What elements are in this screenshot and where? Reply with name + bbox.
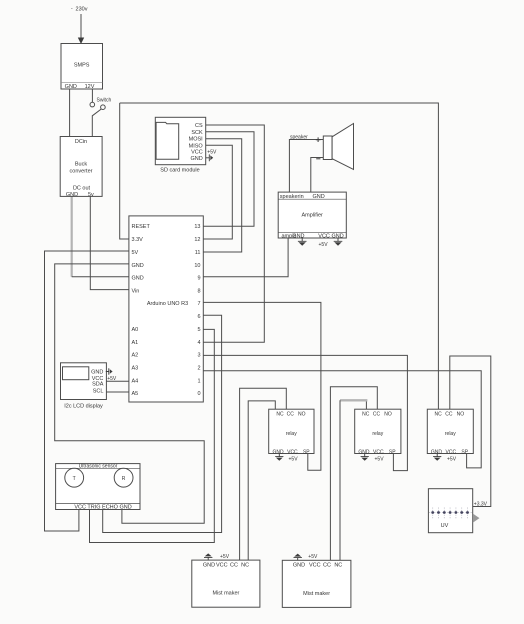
svg-text:I2c LCD display: I2c LCD display (64, 403, 103, 409)
ground symbol below relay K3 GND (433, 454, 441, 457)
svg-text:converter: converter (70, 168, 93, 174)
svg-text:10: 10 (194, 263, 200, 269)
svg-text:A1: A1 (132, 340, 139, 346)
wire Arduino 3.3V riser to top rail (120, 103, 129, 239)
ground symbol below relay K2 GND (361, 454, 369, 457)
ultrasonic bottom separator line (56, 502, 140, 504)
amplifier top separator line (278, 198, 346, 200)
UV module gray arrow (473, 514, 480, 523)
ground symbol below relay K1 GND (275, 454, 283, 457)
svg-text:GND: GND (358, 449, 370, 455)
svg-text:Mist maker: Mist maker (212, 591, 239, 597)
wire speaker + to amplifier speakerin (289, 140, 323, 193)
svg-text:GND: GND (132, 263, 144, 269)
230v arrowhead (78, 38, 84, 45)
svg-text:A5: A5 (132, 391, 139, 397)
svg-text:NC: NC (362, 412, 370, 418)
svg-text:VCC: VCC (446, 449, 457, 455)
svg-text:SD card module: SD card module (160, 167, 199, 173)
svg-text:0: 0 (197, 391, 200, 397)
svg-text:NO: NO (298, 412, 306, 418)
svg-text:8: 8 (197, 289, 200, 295)
svg-text:GND: GND (65, 84, 77, 90)
svg-text:Mist maker: Mist maker (303, 591, 330, 597)
svg-text:GND: GND (293, 563, 305, 569)
ultrasonic transmitter circle T (65, 468, 84, 487)
wire Arduino pin 2 to relay K3 SP (203, 371, 481, 468)
amplifier box (278, 192, 346, 238)
svg-text:A2: A2 (132, 353, 139, 359)
svg-text:GND: GND (203, 562, 215, 568)
ground symbol below amplifier VCC-side GND (334, 238, 343, 241)
SD card module box (155, 117, 205, 164)
svg-text:SP: SP (389, 449, 396, 455)
svg-text:relay: relay (372, 431, 383, 437)
svg-text:+3.3V: +3.3V (474, 501, 488, 507)
label speaker - (316, 158, 320, 160)
svg-text:NO: NO (384, 412, 392, 418)
ground symbol above mist maker 1 GND (204, 557, 212, 560)
svg-text:Switch: Switch (97, 98, 112, 104)
svg-text:6: 6 (197, 314, 200, 320)
svg-text:3: 3 (197, 353, 200, 359)
speaker horn (332, 124, 353, 170)
svg-text:GND: GND (91, 370, 103, 376)
svg-text:+5V: +5V (308, 554, 318, 560)
LCD screen rectangle (63, 367, 89, 380)
svg-text:SCK: SCK (191, 130, 203, 136)
buck converter box (60, 137, 102, 197)
svg-text:5: 5 (197, 327, 200, 333)
ground symbol below amplifier ampin GND (298, 238, 307, 241)
svg-text:SP: SP (303, 449, 310, 455)
svg-text:NC: NC (334, 563, 342, 569)
svg-text:1: 1 (197, 378, 200, 384)
wire SMPS 12V to switch (91, 89, 93, 102)
svg-text:Buck: Buck (75, 161, 87, 167)
UV LED dots (431, 511, 469, 514)
svg-text:Arduino UNO R3: Arduino UNO R3 (147, 301, 188, 307)
svg-text:SP: SP (461, 449, 468, 455)
relay K3 box (427, 409, 473, 453)
ultrasonic sensor box (56, 464, 140, 510)
wire LCD SDA to Arduino A4 (106, 380, 129, 382)
svg-text:MISO: MISO (189, 143, 204, 149)
svg-text:5V: 5V (132, 250, 139, 256)
svg-text:+5V: +5V (107, 376, 117, 382)
wire Buck GND out to Arduino GND (vertical, highlighted gray) (71, 196, 73, 276)
ultrasonic top separator line (56, 467, 140, 469)
wire SMPS GND to Buck converter DCin (69, 89, 71, 137)
svg-text:CC: CC (323, 563, 331, 569)
svg-text:+5V: +5V (375, 457, 385, 463)
svg-text:T: T (73, 476, 76, 482)
wire relay K1 NC to mist maker 1 NC (248, 401, 275, 560)
wire relay K1 CC to mist maker 1 CC (240, 388, 287, 560)
wire SD card CS to Arduino pin 4 (203, 125, 264, 342)
svg-text:A0: A0 (132, 327, 139, 333)
svg-text:NO: NO (457, 412, 465, 418)
switch terminal circle 2 (101, 105, 106, 110)
I2c LCD display box (61, 363, 107, 400)
Arduino UNO R3 box (129, 216, 203, 402)
svg-text:relay: relay (445, 431, 456, 437)
svg-text:+5V: +5V (447, 457, 457, 463)
ground symbol right of SD card GND pin (206, 154, 210, 161)
mist maker 1 box (192, 560, 260, 607)
svg-text:+5V: +5V (319, 242, 329, 248)
svg-text:+5V: +5V (289, 457, 299, 463)
wire SD card MISO to Arduino pin 12 (203, 145, 232, 239)
switch terminal circle 1 (90, 102, 95, 107)
svg-text:2: 2 (197, 366, 200, 372)
svg-text:VCC: VCC (373, 449, 384, 455)
svg-text:GND: GND (132, 276, 144, 282)
wire relay K3 CC to UV module +3.3V (450, 356, 491, 507)
wire 230v mains input into SMPS (80, 14, 82, 39)
svg-text:+5V: +5V (207, 149, 217, 155)
svg-text:CC: CC (230, 562, 238, 568)
svg-text:VCC: VCC (191, 149, 203, 155)
svg-text:NC: NC (241, 562, 249, 568)
svg-text:11: 11 (195, 250, 201, 256)
wire relay K2 NC highlighted gray segment (340, 399, 367, 401)
ground symbol right of LCD GND pin (106, 368, 109, 375)
svg-text:12V: 12V (85, 84, 95, 90)
svg-text:GND: GND (272, 449, 284, 455)
svg-text:speaker: speaker (290, 134, 308, 140)
svg-text:R: R (122, 476, 126, 482)
svg-text:RESET: RESET (132, 224, 151, 230)
wire Arduino 5V rail to ultrasonic VCC (45, 251, 129, 531)
svg-text:GND: GND (431, 449, 443, 455)
svg-text:+5V: +5V (220, 554, 230, 560)
wire switch to Buck converter DCin (92, 109, 101, 137)
wire SD card SCK to Arduino pin 13 (203, 132, 254, 227)
SMPS label separator line (61, 82, 103, 84)
wire relay K2 NC vertical stub (365, 400, 367, 409)
svg-text:VCC TRIG ECHO GND: VCC TRIG ECHO GND (74, 504, 131, 510)
svg-text:DC out: DC out (73, 186, 91, 192)
svg-text:Amplifier: Amplifier (301, 212, 323, 218)
wire Arduino pin 9 to amplifier ampin (203, 238, 288, 277)
relay K2 box (355, 409, 401, 453)
svg-text:230v: 230v (76, 7, 88, 13)
svg-text:7: 7 (197, 301, 200, 307)
svg-text:12: 12 (194, 237, 200, 243)
svg-text:speakerin: speakerin (280, 194, 304, 200)
svg-text:GND: GND (292, 233, 304, 239)
label speaker + (316, 137, 321, 142)
speaker driver rectangle (323, 136, 332, 160)
wire Buck GND out to Arduino GND (horizontal) (72, 276, 129, 278)
ultrasonic receiver circle R (114, 468, 133, 487)
svg-text:5v: 5v (88, 192, 94, 198)
mist maker 2 box (282, 560, 351, 607)
wire mist maker 2 NC riser (339, 400, 341, 560)
wire SD card MOSI to Arduino pin 11 (203, 139, 241, 252)
ground symbol above mist maker 2 GND (294, 558, 302, 561)
svg-text:SDA: SDA (92, 382, 104, 388)
svg-text:A4: A4 (132, 378, 139, 384)
svg-text:NC: NC (434, 412, 442, 418)
wire Buck 5v out to Arduino Vin (90, 196, 129, 289)
wire Arduino pin 7 to relay K1 SP (203, 302, 321, 470)
svg-text:SCL: SCL (93, 389, 104, 395)
svg-text:CS: CS (195, 123, 203, 129)
svg-text:MOSI: MOSI (189, 137, 204, 143)
svg-text:GND: GND (190, 156, 202, 162)
wire relay K2 CC to mist maker 2 CC (330, 387, 377, 561)
UV module dotted vertical ticks (433, 508, 468, 520)
wire top rail 3.3V to relay K3 NC (120, 103, 439, 409)
svg-text:VCC: VCC (216, 562, 228, 568)
wire speaker - to amplifier GND (311, 158, 324, 193)
svg-text:CC: CC (287, 412, 295, 418)
svg-text:Ultrasonic sensor: Ultrasonic sensor (79, 463, 118, 469)
svg-text:13: 13 (194, 224, 200, 230)
SD card inner card outline (156, 122, 179, 159)
svg-text:CC: CC (373, 412, 381, 418)
SMPS power supply box (61, 44, 103, 90)
svg-text:9: 9 (197, 276, 200, 282)
svg-text:relay: relay (286, 431, 297, 437)
svg-text:Vin: Vin (132, 289, 140, 295)
relay K1 box (269, 409, 314, 453)
svg-text:A3: A3 (132, 366, 139, 372)
svg-text:CC: CC (445, 412, 453, 418)
svg-text:VCC: VCC (318, 233, 330, 239)
svg-text:SMPS: SMPS (74, 63, 90, 69)
svg-text:UV: UV (441, 523, 449, 529)
svg-text:GND: GND (66, 192, 78, 198)
svg-text:GND: GND (313, 194, 325, 200)
svg-text:4: 4 (197, 340, 200, 346)
UV LED module box (428, 489, 472, 533)
wire Arduino GND rail to ultrasonic GND (55, 264, 205, 523)
UV module dotted horizontal line (429, 512, 472, 514)
wire ultrasonic ECHO to Arduino pin 6 (103, 315, 222, 532)
svg-text:DCin: DCin (75, 139, 87, 145)
svg-text:VCC: VCC (287, 449, 298, 455)
amplifier bottom separator line (278, 231, 346, 233)
svg-text:VCC: VCC (309, 563, 321, 569)
wire ultrasonic TRIG to Arduino pin 5 (90, 329, 215, 542)
svg-text:3.3V: 3.3V (132, 237, 144, 243)
wire Arduino pin 3 to relay K2 SP (203, 355, 407, 470)
svg-text:GND: GND (332, 233, 344, 239)
wire LCD SCL to Arduino A5 (106, 391, 129, 393)
svg-text:NC: NC (276, 412, 284, 418)
